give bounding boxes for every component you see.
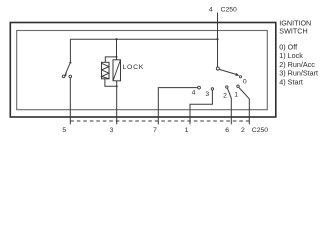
wire: lock bottom lead to pin 3 <box>116 81 118 125</box>
contact 4 circle <box>198 86 201 89</box>
left switch arm arrowhead <box>64 72 67 77</box>
svg-text:C250: C250 <box>252 127 268 134</box>
contact 1 circle <box>237 85 239 87</box>
wire: contact 1 to pin 2 <box>239 88 249 125</box>
rotary switch pivot circle <box>216 67 219 70</box>
left switch bottom terminal circle <box>69 75 72 78</box>
svg-text:0: 0 <box>243 78 247 85</box>
svg-text:5: 5 <box>62 127 66 134</box>
lock actuator box <box>113 60 121 81</box>
wire: contact 4 to pin 7 <box>158 88 197 125</box>
junction dot at left switch arm pivot <box>69 62 71 64</box>
wire: contact 2 to pin 6 <box>228 88 232 124</box>
wire: lock actuator feed lead <box>116 39 118 60</box>
svg-text:1: 1 <box>185 127 189 134</box>
svg-text:1) Lock: 1) Lock <box>279 51 303 60</box>
wire: coil branch top <box>105 57 116 62</box>
svg-text:2: 2 <box>223 93 227 100</box>
outer enclosure border <box>10 23 276 118</box>
svg-text:LOCK: LOCK <box>123 64 145 71</box>
contact 3 circle <box>211 88 213 90</box>
svg-text:6: 6 <box>225 127 229 134</box>
svg-text:3: 3 <box>110 127 114 134</box>
lock actuator diagonal <box>113 60 121 81</box>
junction dot at bus and feed wire <box>216 38 218 40</box>
svg-text:4) Start: 4) Start <box>279 78 303 87</box>
junction dot at lock bottom <box>116 85 118 87</box>
svg-text:2: 2 <box>241 127 245 134</box>
svg-text:3) Run/Start: 3) Run/Start <box>279 69 318 78</box>
lock solenoid coil box <box>102 62 110 79</box>
wire: feed from pin 4 down to rotary pivot <box>217 13 219 68</box>
svg-text:4: 4 <box>209 6 213 13</box>
contact 2 circle <box>226 86 228 88</box>
junction dot on top bus at lock feed <box>115 38 117 40</box>
junction dot at coil branch <box>116 56 118 58</box>
wire: coil bottom branch <box>105 79 117 87</box>
rotary switch arm <box>219 69 237 74</box>
lock solenoid coil zigzag <box>102 63 109 78</box>
wire: left switch bottom lead to pin 5 <box>69 78 71 125</box>
svg-text:C250: C250 <box>221 6 237 13</box>
left switch arm end terminal circle <box>62 75 65 78</box>
svg-text:4: 4 <box>192 90 196 97</box>
contact 0 circle <box>239 76 241 78</box>
svg-text:SWITCH: SWITCH <box>279 27 307 36</box>
svg-text:2) Run/Acc: 2) Run/Acc <box>279 60 315 69</box>
connector C250 dashed body <box>70 120 249 122</box>
rotary arm arrowhead <box>235 73 239 76</box>
inner enclosure border <box>17 31 268 110</box>
left switch arm <box>66 63 71 74</box>
wire: contact 3 to pin 1 <box>190 90 212 124</box>
svg-text:1: 1 <box>234 92 238 99</box>
svg-text:3: 3 <box>205 91 209 98</box>
svg-text:7: 7 <box>153 127 157 134</box>
wire: top bus <box>70 38 217 40</box>
wire: left switch top lead <box>69 39 71 62</box>
